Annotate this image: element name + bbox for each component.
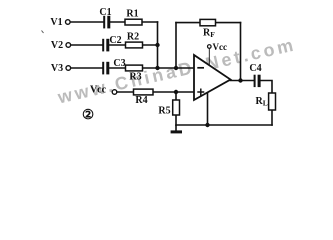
resistor RF bbox=[200, 19, 216, 25]
svg-text:V1: V1 bbox=[50, 17, 62, 28]
svg-text:R2: R2 bbox=[127, 32, 139, 43]
wire R5 to ground rail bbox=[175, 115, 177, 125]
junction dot row2 bus bbox=[155, 43, 159, 47]
wire V1 terminal to C1 bbox=[70, 21, 103, 23]
terminal Vcc input bbox=[112, 90, 117, 95]
capacitor C2 bbox=[102, 39, 109, 52]
junction dot R5 tap bbox=[174, 90, 178, 94]
capacitor C1 bbox=[103, 16, 110, 29]
junction dot output node bbox=[238, 78, 242, 82]
svg-text:RL: RL bbox=[256, 96, 268, 108]
svg-text:C4: C4 bbox=[249, 63, 261, 74]
wire op-amp output to C4 bbox=[231, 80, 254, 82]
svg-text:Vcc: Vcc bbox=[213, 42, 228, 52]
wire RF to feedback right corner bbox=[216, 22, 241, 24]
junction dot row3 bus bbox=[155, 66, 159, 70]
wire R4 to op-amp noninverting input bbox=[153, 91, 194, 93]
resistor R5 bbox=[173, 100, 180, 115]
terminal V2 bbox=[66, 43, 71, 48]
wire noninverting node to R5 bbox=[175, 92, 177, 100]
junction dot feedback tap bbox=[174, 66, 178, 70]
ground bbox=[171, 125, 182, 132]
svg-text:RF: RF bbox=[203, 28, 215, 40]
resistor R2 bbox=[126, 42, 143, 48]
terminal V1 bbox=[66, 20, 71, 25]
junction dot ground rail bbox=[205, 123, 209, 127]
svg-text:V3: V3 bbox=[51, 63, 63, 74]
resistor R1 bbox=[125, 19, 142, 25]
wire R2 to summing bus bbox=[143, 44, 158, 46]
capacitor C4 bbox=[254, 75, 261, 87]
terminal V3 bbox=[66, 66, 71, 71]
wire C4 to RL corner bbox=[261, 81, 273, 94]
wire C3 to R3 bbox=[109, 67, 125, 69]
wire C1 to R1 bbox=[110, 21, 125, 23]
wire V2 terminal to C2 bbox=[71, 44, 102, 46]
svg-text:Vcc: Vcc bbox=[90, 85, 107, 96]
wire R1 to summing bus corner bbox=[142, 21, 158, 23]
svg-text:C2: C2 bbox=[109, 35, 121, 46]
wire Vcc terminal to R4 bbox=[117, 91, 134, 93]
svg-text:②: ② bbox=[82, 107, 94, 122]
wire C2 to R2 bbox=[109, 44, 125, 46]
wire summing bus vertical bbox=[157, 22, 159, 68]
svg-text:R4: R4 bbox=[135, 95, 147, 106]
wire R3 to op-amp inverting input bbox=[143, 67, 195, 69]
op-amp U1 bbox=[194, 55, 231, 100]
svg-text:R3: R3 bbox=[129, 72, 141, 83]
wire feedback top left to RF bbox=[176, 22, 200, 24]
capacitor C3 bbox=[102, 62, 109, 75]
wire RL to ground rail bbox=[271, 110, 273, 125]
wire Vcc supply pin to op-amp bbox=[208, 48, 210, 65]
wire op-amp V- pin to ground rail bbox=[207, 92, 209, 125]
svg-text:C1: C1 bbox=[99, 7, 111, 18]
resistor R4 bbox=[134, 89, 154, 95]
svg-text:R5: R5 bbox=[158, 106, 170, 117]
wire ground rail bbox=[176, 124, 272, 126]
stray scan mark bbox=[42, 31, 44, 34]
svg-text:V2: V2 bbox=[51, 40, 63, 51]
wire feedback right vertical to output bbox=[240, 23, 242, 81]
resistor RL bbox=[269, 93, 276, 110]
svg-text:C3: C3 bbox=[113, 58, 125, 69]
wire V3 terminal to C3 bbox=[71, 67, 102, 69]
wire feedback left vertical bbox=[175, 23, 177, 68]
svg-text:R1: R1 bbox=[126, 9, 138, 20]
resistor R3 bbox=[126, 65, 143, 71]
terminal Vcc supply pin bbox=[208, 45, 212, 49]
